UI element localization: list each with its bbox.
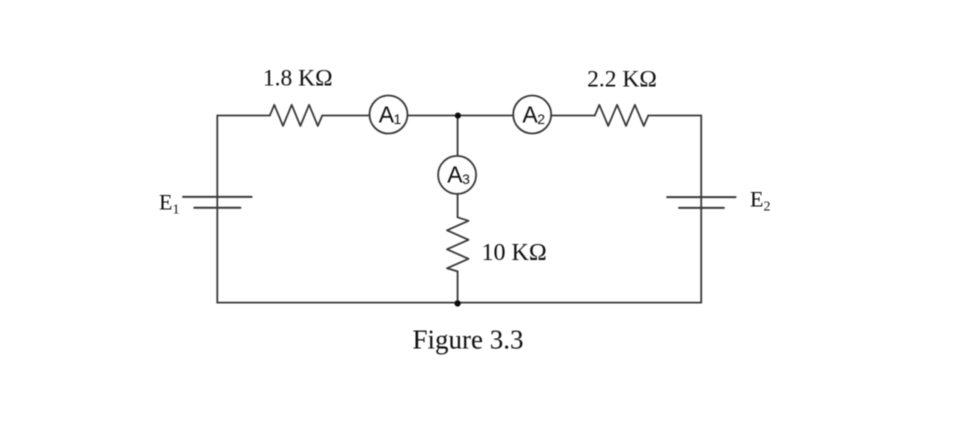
battery E1 short plate xyxy=(194,207,240,209)
wire R1 to A1 xyxy=(322,115,369,117)
resistor R1 1.8K zigzag xyxy=(270,105,323,126)
wire top-left segment xyxy=(217,115,269,117)
wire A1 to A2 through node xyxy=(408,115,514,117)
ammeter A1 circle xyxy=(370,96,408,134)
battery E1 long plate xyxy=(183,196,252,198)
node top junction dot xyxy=(455,113,461,119)
svg-text:2.2 KΩ: 2.2 KΩ xyxy=(587,67,657,93)
wire A3 to R3 xyxy=(457,194,459,217)
svg-text:E1: E1 xyxy=(159,190,179,218)
svg-text:E2: E2 xyxy=(750,187,770,215)
ammeter A3 circle xyxy=(438,156,476,194)
svg-text:1.8 KΩ: 1.8 KΩ xyxy=(263,66,333,92)
wire left vertical xyxy=(216,116,218,303)
svg-text:A3: A3 xyxy=(447,161,470,187)
wire R3 to bottom node xyxy=(457,271,459,302)
wire right vertical xyxy=(700,116,702,303)
ammeter A2 circle xyxy=(513,96,551,134)
battery E2 short plate xyxy=(679,207,724,209)
battery E2 long plate xyxy=(667,196,735,198)
wire bottom xyxy=(217,302,701,304)
svg-text:A1: A1 xyxy=(379,101,402,127)
wire R2 to top-right corner xyxy=(648,115,701,117)
svg-text:10 KΩ: 10 KΩ xyxy=(482,240,547,266)
svg-text:Figure 3.3: Figure 3.3 xyxy=(413,325,524,355)
resistor R3 10K vertical zigzag xyxy=(447,217,469,271)
wire A2 to R2 xyxy=(551,115,595,117)
resistor R2 2.2K zigzag xyxy=(595,105,649,126)
node bottom junction dot xyxy=(454,300,460,306)
wire node to A3 xyxy=(457,116,459,156)
svg-text:A2: A2 xyxy=(522,101,545,127)
